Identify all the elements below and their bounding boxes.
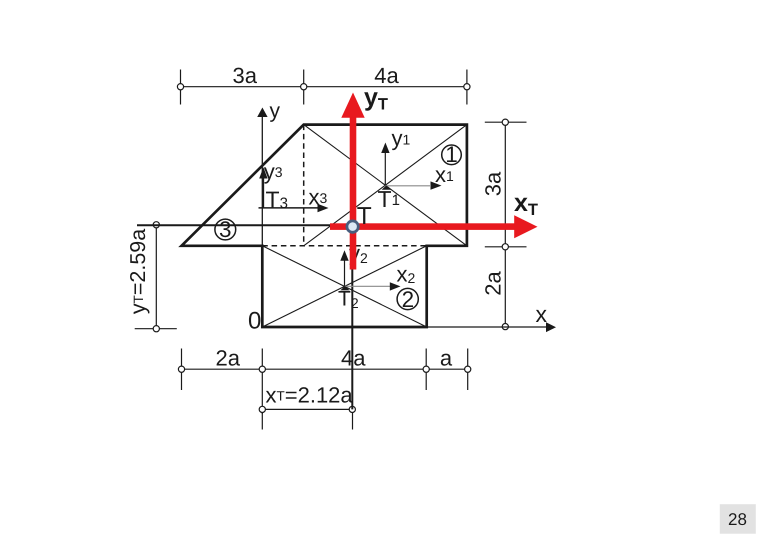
rectangle 1 diagonals bbox=[304, 125, 467, 246]
svg-text:4a: 4a bbox=[374, 63, 399, 88]
dimension line xT=2.12a bbox=[259, 390, 355, 430]
xT extension line to dimension bbox=[351, 227, 353, 410]
svg-text:1: 1 bbox=[445, 142, 458, 167]
centroid axes y3 arrow bbox=[259, 167, 267, 208]
red centroid axis xT arrow bbox=[330, 215, 538, 238]
svg-text:x: x bbox=[536, 301, 548, 327]
svg-text:2a: 2a bbox=[215, 346, 240, 371]
x axis bbox=[427, 322, 556, 332]
yT extension line to centroid bbox=[137, 224, 353, 226]
rectangle 2 diagonals bbox=[262, 246, 426, 327]
dashed divider vertical x=3a bbox=[303, 125, 305, 246]
centroid tick T2 bbox=[340, 286, 349, 290]
svg-text:4a: 4a bbox=[341, 346, 366, 371]
svg-text:a: a bbox=[440, 346, 453, 371]
region 3 circled number bbox=[215, 217, 236, 242]
centroid axes x1 arrow bbox=[385, 181, 441, 189]
region 1 circled number bbox=[442, 142, 462, 167]
centroid axes x2 arrow bbox=[345, 282, 401, 290]
red centroid axis yT arrow bbox=[341, 93, 364, 270]
left dimension line yT=2.59a bbox=[135, 222, 177, 332]
svg-text:0: 0 bbox=[248, 308, 261, 335]
centroid axes x3 arrow bbox=[259, 204, 329, 212]
bottom dimension line 2a+4a+a bbox=[178, 349, 470, 391]
page number box bbox=[720, 504, 756, 534]
right dimension line 3a+2a bbox=[485, 119, 527, 330]
region 2 circled number bbox=[397, 287, 418, 312]
top dimension line 3a+4a bbox=[177, 70, 470, 105]
svg-text:y: y bbox=[270, 100, 281, 123]
svg-text:3a: 3a bbox=[481, 171, 506, 196]
composite shape outline bbox=[182, 125, 467, 327]
centroid axes y2 arrow bbox=[340, 250, 348, 286]
svg-text:T: T bbox=[357, 203, 372, 230]
y axis bbox=[257, 108, 267, 328]
centroid tick T1 bbox=[382, 185, 391, 189]
centroid axes y1 arrow bbox=[381, 143, 389, 186]
svg-text:2: 2 bbox=[402, 287, 415, 312]
svg-text:2a: 2a bbox=[481, 271, 506, 296]
svg-text:3: 3 bbox=[219, 217, 232, 242]
svg-text:28: 28 bbox=[728, 510, 747, 529]
svg-text:3a: 3a bbox=[233, 63, 258, 88]
dashed divider horizontal y=2a bbox=[262, 245, 426, 247]
centroid point T bbox=[347, 221, 358, 232]
